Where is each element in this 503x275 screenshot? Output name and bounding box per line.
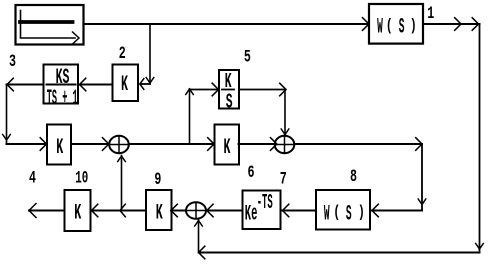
svg-text:W: W [377,15,383,40]
svg-text:6: 6 [248,163,255,183]
block K 6 [215,125,240,165]
summing junction 1 [109,136,129,153]
svg-text:(: ( [333,204,340,223]
svg-text:S: S [399,15,405,40]
svg-text:-TS: -TS [257,192,273,215]
wire W(S) 8 to block 7 [283,204,317,217]
svg-text:7: 7 [280,170,287,190]
block K 4 [47,125,71,165]
wire feed up to summing junction 1 [118,156,126,211]
wire W(S) 1 to far right rail [423,18,480,31]
svg-text:): ) [358,204,365,223]
wire block 7 to summing junction 3 [207,204,242,217]
block K 10 [65,190,91,231]
wire block 2 to block 3 [80,78,113,91]
far right rail down [476,24,484,251]
block W(S) 1 [369,4,423,44]
summing junction 3 [186,202,206,219]
signal source box (step input) [16,5,84,45]
svg-text:3: 3 [9,52,16,72]
svg-text:5: 5 [244,48,251,68]
wire block 5 to summing junction 2 [239,83,289,135]
wire summing junction 3 to block 9 [171,204,186,217]
wire branch up to block 5 [186,83,219,144]
svg-text:K: K [74,200,81,226]
block K/S 5 [219,70,239,114]
svg-text:K: K [156,200,163,226]
wire feed up to summing junction 3 [195,220,203,253]
svg-text:S: S [346,201,352,226]
block Ke^-TS 7 [243,191,281,230]
svg-text:2: 2 [119,44,126,64]
wire summing junction 1 to block 6 [129,138,214,151]
block K 9 [146,190,172,230]
block KS/(TS+1) 3 [44,65,79,112]
output wire from block 10 [29,204,65,218]
svg-text:10: 10 [75,169,88,189]
svg-text:1: 1 [427,4,434,24]
svg-text:TS + 1: TS + 1 [47,86,78,111]
wire block 6 to summing junction 2 [239,138,277,151]
right rail down to W(S) block 8 [372,144,426,217]
svg-text:9: 9 [154,170,161,190]
wire branch down to block 2 [140,24,154,89]
svg-text:K: K [56,134,63,160]
wire block 4 to summing junction 1 [71,138,109,151]
wire left rail down [3,85,11,145]
wire block 9 to block 10 [92,204,147,217]
svg-text:(: ( [386,17,393,36]
wire summing junction 2 to right rail [294,138,422,151]
wire block 3 to left rail [7,78,44,91]
wire source to W(S) block 1 [84,18,370,31]
svg-text:K: K [224,134,231,160]
bottom feedback line [199,246,480,259]
wire left rail to block 4 [7,138,47,151]
svg-text:Ke: Ke [245,202,258,227]
summing junction 2 [275,136,295,153]
block K 2 [113,65,139,102]
svg-text:K: K [121,71,128,97]
svg-text:4: 4 [29,169,36,189]
block W(S) 8 [316,190,370,230]
svg-text:S: S [226,90,233,114]
svg-text:): ) [410,17,417,36]
svg-text:W: W [324,201,330,226]
svg-text:8: 8 [350,167,357,187]
